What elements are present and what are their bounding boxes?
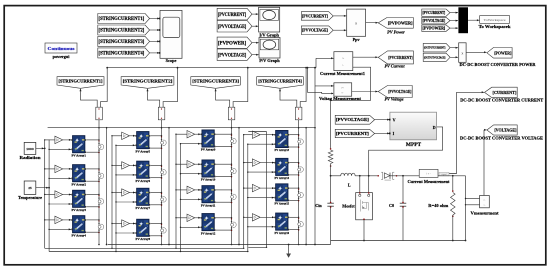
svg-text:[STRINGCURRENT2]: [STRINGCURRENT2] — [123, 79, 173, 84]
svg-text:PV Array6: PV Array6 — [136, 179, 151, 183]
svg-text:[PVPOWER]: [PVPOWER] — [423, 26, 446, 30]
svg-text:PV Array13: PV Array13 — [275, 148, 290, 152]
svg-text:PV Array12: PV Array12 — [201, 231, 216, 235]
svg-text:PV Array7: PV Array7 — [136, 206, 151, 210]
svg-text:PV Array5: PV Array5 — [136, 149, 151, 153]
svg-text:PV Array16: PV Array16 — [275, 231, 290, 235]
svg-text:[OUTPUTVOLTAGE]: [OUTPUTVOLTAGE] — [424, 55, 445, 59]
svg-text:i-: i- — [343, 65, 345, 67]
svg-text:[STRINGCURRENT1]: [STRINGCURRENT1] — [59, 79, 103, 84]
svg-text:V: V — [393, 117, 396, 122]
svg-text:[STRINGCURRENT4]: [STRINGCURRENT4] — [258, 79, 302, 84]
svg-text:[PVVOLTAGE]: [PVVOLTAGE] — [218, 25, 247, 30]
svg-text:P/V Graph: P/V Graph — [259, 58, 280, 63]
svg-text:v-: v- — [483, 205, 485, 207]
svg-text:[PVCURRENT]: [PVCURRENT] — [218, 13, 247, 18]
svg-text:PV Power: PV Power — [387, 29, 405, 34]
svg-text:powergui: powergui — [53, 54, 71, 59]
svg-text:[STRINGCURRENT1]: [STRINGCURRENT1] — [99, 17, 145, 22]
svg-text:DC-DC BOOST CONVERTER CURRENT: DC-DC BOOST CONVERTER CURRENT — [460, 98, 543, 103]
svg-text:x: x — [355, 21, 357, 26]
svg-text:[PVCURRENT]: [PVCURRENT] — [302, 13, 328, 18]
svg-text:PV Voltage: PV Voltage — [384, 97, 403, 102]
svg-text:Continuous: Continuous — [48, 46, 75, 51]
svg-text:[PVPOWER]: [PVPOWER] — [218, 41, 247, 46]
svg-text:PV Array14: PV Array14 — [275, 176, 290, 180]
svg-text:PV Array3: PV Array3 — [71, 208, 86, 212]
svg-text:PV Current: PV Current — [384, 64, 405, 69]
svg-text:PV Array15: PV Array15 — [275, 202, 290, 206]
svg-text:[STRINGCURRENT3]: [STRINGCURRENT3] — [99, 40, 145, 45]
svg-text:R=40 ohm: R=40 ohm — [428, 203, 449, 208]
svg-text:[STRINGCURRENT2]: [STRINGCURRENT2] — [99, 29, 145, 34]
svg-text:I/V Graph: I/V Graph — [259, 32, 279, 37]
svg-text:Vmeasurment: Vmeasurment — [471, 210, 500, 215]
svg-text:PV Array2: PV Array2 — [71, 182, 86, 186]
svg-text:DC-DC BOOST CONVERTER POWER: DC-DC BOOST CONVERTER POWER — [460, 62, 537, 67]
svg-text:PV Array10: PV Array10 — [201, 178, 216, 182]
svg-text:[PVCURRENT]: [PVCURRENT] — [423, 11, 446, 15]
svg-text:Current Measurement: Current Measurement — [408, 179, 451, 184]
svg-text:C0: C0 — [389, 203, 394, 208]
svg-text:Mosfet: Mosfet — [342, 204, 355, 209]
svg-text:[PVCURRENT]: [PVCURRENT] — [388, 55, 413, 60]
svg-text:PV Array9: PV Array9 — [201, 148, 216, 152]
svg-text:[PVVOLTAGE]: [PVVOLTAGE] — [423, 19, 446, 23]
svg-text:[PVVOLTAGE]: [PVVOLTAGE] — [388, 89, 412, 94]
svg-text:[CURRENT]: [CURRENT] — [493, 90, 517, 95]
svg-text:x: x — [462, 51, 464, 55]
svg-text:DC-DC BOOST CONVERTER VOLTAGE: DC-DC BOOST CONVERTER VOLTAGE — [460, 136, 543, 141]
svg-text:[PVCURRENT]: [PVCURRENT] — [336, 131, 369, 136]
svg-text:[VOLTAGE]: [VOLTAGE] — [494, 128, 517, 133]
svg-text:[STRINGCURRENT4]: [STRINGCURRENT4] — [99, 51, 145, 56]
svg-text:L: L — [348, 183, 351, 188]
svg-text:i + -: i + - — [426, 172, 431, 176]
svg-text:[PVVOLTAGE]: [PVVOLTAGE] — [302, 28, 328, 33]
svg-text:[PVVOLTAGE]: [PVVOLTAGE] — [336, 117, 369, 122]
svg-text:To Workspacek: To Workspacek — [479, 24, 512, 29]
svg-text:PV Array1: PV Array1 — [71, 153, 86, 157]
svg-text:[PVVOLTAGE]: [PVVOLTAGE] — [218, 53, 247, 58]
svg-text:Cin: Cin — [315, 203, 322, 208]
svg-text:ToWorkspace: ToWorkspace — [484, 18, 507, 22]
svg-text:Temperature: Temperature — [18, 195, 42, 200]
svg-text:25: 25 — [28, 186, 32, 190]
svg-text:MPPT: MPPT — [406, 142, 422, 148]
svg-text:PV Array11: PV Array11 — [201, 203, 216, 207]
svg-text:Ppv: Ppv — [353, 37, 361, 42]
svg-text:[OUTPUTCURRENT]: [OUTPUTCURRENT] — [424, 46, 445, 50]
svg-text:v-: v- — [342, 93, 344, 95]
svg-text:[POWER]: [POWER] — [494, 50, 512, 55]
svg-text:D: D — [433, 125, 436, 130]
svg-text:Scope: Scope — [166, 58, 177, 63]
svg-text:Current Measurement1: Current Measurement1 — [320, 71, 365, 76]
svg-text:[PVPOWER]: [PVPOWER] — [388, 20, 413, 25]
svg-text:PV Array8: PV Array8 — [136, 237, 151, 241]
svg-text:1000: 1000 — [26, 147, 34, 151]
svg-text:PV Array4: PV Array4 — [71, 233, 86, 237]
svg-text:[STRINGCURRENT3]: [STRINGCURRENT3] — [192, 79, 239, 84]
svg-text:Radiation: Radiation — [20, 155, 42, 160]
